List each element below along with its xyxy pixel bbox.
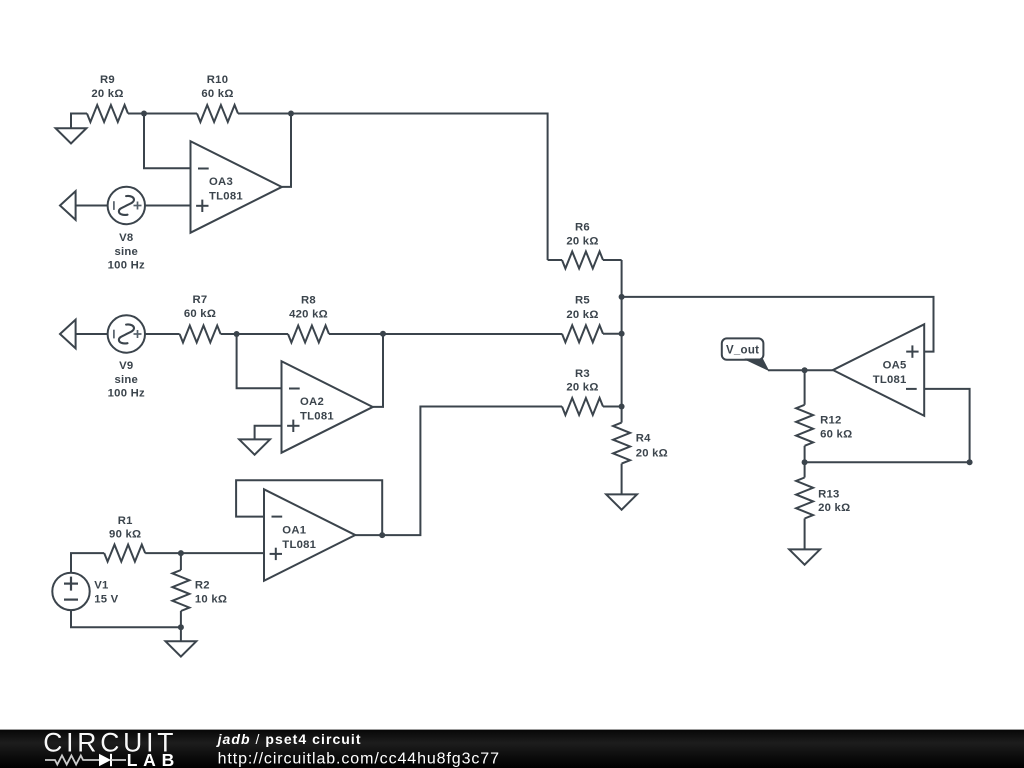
wire [622, 297, 934, 352]
resistor R8 [288, 326, 329, 343]
svg-text:sine: sine [114, 246, 138, 258]
node [178, 624, 184, 630]
resistor R6 [548, 259, 562, 261]
wire [71, 553, 104, 573]
resistor R1 [104, 545, 145, 562]
resistor R2 [180, 553, 182, 570]
resistor R13 [804, 462, 806, 477]
wire [71, 610, 181, 627]
svg-text:jadb / pset4 circuit: jadb / pset4 circuit [216, 731, 362, 747]
wire [768, 369, 833, 371]
svg-text:15 V: 15 V [94, 594, 118, 606]
wire [76, 205, 108, 207]
svg-text:420 kΩ: 420 kΩ [289, 308, 328, 320]
svg-text:sine: sine [114, 374, 138, 386]
svg-text:20 kΩ: 20 kΩ [566, 235, 598, 247]
flag V_out [722, 338, 764, 359]
svg-text:R8: R8 [301, 294, 316, 306]
op-amp OA2 [282, 361, 373, 453]
svg-text:OA5: OA5 [883, 360, 907, 372]
svg-text:V8: V8 [119, 232, 133, 244]
wire [238, 113, 291, 115]
wire [236, 480, 382, 535]
node [380, 331, 386, 337]
svg-text:R5: R5 [575, 294, 590, 306]
wire [373, 334, 383, 407]
svg-text:TL081: TL081 [300, 411, 334, 423]
wire [128, 113, 197, 115]
ground [239, 439, 270, 454]
svg-text:10 kΩ: 10 kΩ [195, 594, 227, 606]
svg-text:60 kΩ: 60 kΩ [201, 88, 233, 100]
node [379, 532, 385, 538]
svg-text:R13: R13 [818, 489, 839, 501]
CircuitLab logo [43, 727, 180, 768]
wire [603, 406, 622, 408]
footer bar [0, 730, 1024, 768]
svg-text:100 Hz: 100 Hz [108, 259, 145, 271]
wire [621, 260, 623, 407]
node [802, 367, 808, 373]
source V9 [108, 315, 145, 352]
source V8 [108, 187, 145, 224]
node [619, 404, 625, 410]
node [619, 294, 625, 300]
svg-text:60 kΩ: 60 kΩ [820, 428, 852, 440]
resistor R3 [562, 398, 603, 415]
svg-text:90 kΩ: 90 kΩ [109, 529, 141, 541]
svg-text:20 kΩ: 20 kΩ [636, 448, 668, 460]
node [288, 111, 294, 117]
wire [805, 461, 970, 463]
svg-text:V1: V1 [94, 580, 108, 592]
svg-text:V_out: V_out [726, 345, 759, 357]
svg-text:R6: R6 [575, 222, 590, 234]
wire [144, 114, 191, 169]
svg-text:OA1: OA1 [282, 524, 306, 536]
svg-text:OA3: OA3 [209, 176, 233, 188]
ground [789, 549, 820, 564]
svg-text:TL081: TL081 [282, 539, 316, 551]
wire [603, 333, 622, 335]
svg-text:100 Hz: 100 Hz [108, 387, 145, 399]
resistor R12 [804, 370, 806, 405]
node [141, 111, 147, 117]
svg-text:R7: R7 [193, 294, 208, 306]
wire [255, 426, 282, 439]
svg-text:R10: R10 [207, 74, 228, 86]
source V1 [52, 573, 89, 610]
node [178, 550, 184, 556]
node [234, 331, 240, 337]
op-amp OA5 [833, 324, 924, 416]
wire [145, 333, 180, 335]
ground [180, 627, 182, 641]
svg-text:R1: R1 [118, 515, 133, 527]
svg-text:20 kΩ: 20 kΩ [566, 309, 598, 321]
svg-text:LAB: LAB [127, 750, 180, 768]
svg-text:60 kΩ: 60 kΩ [184, 308, 216, 320]
svg-text:R9: R9 [100, 74, 115, 86]
ground [606, 494, 637, 509]
wire [145, 205, 191, 207]
svg-text:http://circuitlab.com/cc44hu8f: http://circuitlab.com/cc44hu8fg3c77 [218, 751, 500, 768]
svg-text:TL081: TL081 [873, 374, 907, 386]
svg-text:20 kΩ: 20 kΩ [566, 382, 598, 394]
wire [237, 334, 282, 388]
op-amp OA3 [191, 141, 282, 233]
wire [282, 114, 291, 187]
resistor R5 [562, 325, 603, 342]
wire [329, 333, 562, 335]
svg-text:20 kΩ: 20 kΩ [91, 88, 123, 100]
wire [145, 552, 264, 554]
node V8-in [60, 191, 76, 220]
ground [71, 114, 87, 128]
svg-text:20 kΩ: 20 kΩ [818, 502, 850, 514]
svg-text:R4: R4 [636, 433, 651, 445]
resistor R9 [87, 105, 128, 122]
node [619, 331, 625, 337]
resistor R4 [621, 407, 623, 423]
svg-text:V9: V9 [119, 360, 133, 372]
wire [291, 114, 548, 261]
resistor R10 [197, 105, 238, 122]
svg-text:R12: R12 [820, 415, 841, 427]
node V9-in [60, 320, 76, 349]
wire [76, 333, 108, 335]
node [802, 459, 808, 465]
resistor R7 [180, 326, 221, 343]
svg-text:R3: R3 [575, 368, 590, 380]
node [967, 459, 973, 465]
wire [221, 333, 288, 335]
wire [924, 389, 969, 462]
op-amp OA1 [264, 489, 355, 581]
wire [355, 407, 562, 536]
svg-text:TL081: TL081 [209, 191, 243, 203]
svg-text:OA2: OA2 [300, 396, 324, 408]
svg-text:R2: R2 [195, 580, 210, 592]
